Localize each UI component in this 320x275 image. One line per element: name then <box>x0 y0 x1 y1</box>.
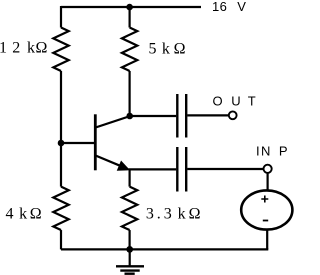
resistor R4 3.3 kOhm <box>122 187 137 230</box>
wire collector to OUT cap <box>130 115 177 117</box>
INP terminal <box>264 165 272 173</box>
base bar <box>94 114 97 170</box>
wire left branch lower <box>60 230 62 249</box>
resistor R2 5 kOhm <box>122 28 137 71</box>
resistor R1 12 kOhm <box>53 28 68 71</box>
wire source to bottom rail <box>266 230 268 250</box>
node collector junction <box>126 113 133 120</box>
wire emitter to IN cap <box>129 168 177 170</box>
svg-text:4kΩ: 4kΩ <box>6 206 42 223</box>
wire middle branch upper <box>129 7 131 28</box>
node base junction <box>58 140 65 147</box>
emitter lead <box>96 156 126 168</box>
wire left branch middle <box>60 71 62 187</box>
source V1 (signal source) <box>241 190 292 229</box>
OUT terminal <box>229 111 237 119</box>
source plus sign <box>261 196 268 203</box>
svg-text:5kΩ: 5kΩ <box>149 40 186 57</box>
wire INP terminal to source <box>267 173 269 191</box>
wire left branch upper <box>60 6 62 28</box>
collector lead <box>96 116 130 127</box>
wire top rail <box>61 6 201 8</box>
capacitor C1 (OUT coupling) <box>177 94 186 138</box>
wire cap to OUT terminal <box>187 114 228 116</box>
transistor Q1 <box>61 114 130 170</box>
resistor R3 4 kOhm <box>53 187 68 230</box>
capacitor C2 (IN coupling) <box>177 147 186 192</box>
source minus sign <box>263 220 268 222</box>
emitter arrowhead <box>118 161 130 170</box>
svg-text:OUT: OUT <box>213 94 256 109</box>
wire bottom rail <box>61 248 268 250</box>
node top junction <box>126 4 133 11</box>
base wire <box>61 142 95 144</box>
wire cap to INP terminal <box>187 168 263 170</box>
ground <box>116 249 144 273</box>
wire 5k to collector <box>129 71 131 116</box>
wire emitter to 3.3k <box>129 169 131 186</box>
node ground junction <box>126 246 133 253</box>
wire 3.3k to bottom rail <box>129 230 131 249</box>
